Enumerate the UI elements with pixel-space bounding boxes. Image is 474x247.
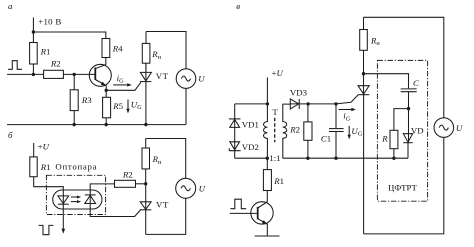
wire gate return rail v bbox=[283, 157, 408, 159]
source U circle a bbox=[176, 69, 196, 89]
input pulse symbol a bbox=[8, 61, 22, 70]
transistor VT1 base bar bbox=[94, 68, 96, 81]
light arrows optocoupler bbox=[71, 196, 78, 198]
capacitor C bbox=[401, 88, 417, 90]
svg-text:UG: UG bbox=[131, 100, 142, 112]
resistor Rn v bbox=[363, 17, 365, 29]
resistor R5 bbox=[105, 90, 107, 97]
svg-text:а: а bbox=[8, 1, 13, 11]
svg-text:+10 В: +10 В bbox=[38, 16, 61, 26]
svg-text:ЦФТРТ: ЦФТРТ bbox=[388, 183, 417, 193]
wire VD1 branch top bbox=[235, 103, 268, 105]
svg-text:R2: R2 bbox=[50, 58, 61, 68]
wire R1 to LED bbox=[34, 177, 64, 205]
resistor Rn a bbox=[145, 32, 147, 44]
resistor R v bbox=[394, 109, 409, 131]
svg-text:R2: R2 bbox=[122, 170, 133, 180]
svg-text:C1: C1 bbox=[321, 134, 331, 144]
wire +U b bbox=[33, 143, 35, 157]
junction +10V bbox=[32, 30, 35, 33]
node base junction bbox=[73, 73, 76, 76]
thyristor VS v bbox=[358, 86, 369, 94]
junction gate b bbox=[144, 182, 147, 185]
junction R5 bottom bbox=[105, 123, 108, 126]
wire bottom b bbox=[146, 198, 186, 234]
zener VD2 bbox=[230, 142, 240, 150]
wire photothyristor bottom to gate bbox=[90, 204, 140, 217]
input pulse symbol v bbox=[230, 199, 246, 209]
wire +U v bbox=[266, 78, 268, 104]
thyristor VT b bbox=[140, 202, 151, 210]
transistor VT2 circle bbox=[251, 202, 273, 224]
node +10V supply wire bbox=[33, 18, 105, 39]
optocoupler dashed box bbox=[46, 175, 105, 214]
transistor VT1 emitter bbox=[95, 80, 106, 91]
wire LED cathode down arrow bbox=[62, 204, 64, 229]
resistor R1 b bbox=[30, 157, 37, 177]
svg-text:R1: R1 bbox=[40, 46, 51, 56]
resistor R2 v bbox=[307, 104, 309, 122]
input pulse symbol b bbox=[39, 225, 54, 234]
diode VD1 bbox=[234, 104, 236, 142]
svg-text:U: U bbox=[198, 73, 205, 83]
junction C bottom bbox=[407, 107, 410, 110]
svg-text:VD: VD bbox=[411, 126, 424, 136]
transistor VT2 base bar bbox=[257, 207, 259, 219]
svg-text:1:1: 1:1 bbox=[269, 153, 280, 163]
svg-text:Rн: Rн bbox=[152, 154, 162, 166]
junction VT cathode bottom bbox=[144, 123, 147, 126]
wire input a bbox=[7, 73, 44, 75]
junction transformer top bbox=[266, 102, 269, 105]
svg-text:Оптопара: Оптопара bbox=[55, 162, 97, 172]
junction R2 bottom v bbox=[306, 157, 309, 160]
svg-text:Т: Т bbox=[272, 107, 278, 117]
svg-text:C: C bbox=[413, 78, 419, 88]
capacitor C top wire bbox=[364, 74, 409, 89]
resistor R2 b bbox=[115, 180, 136, 187]
wire base v bbox=[230, 212, 258, 214]
source U circle b bbox=[176, 178, 196, 198]
transformer core bbox=[274, 118, 276, 143]
svg-text:U: U bbox=[199, 183, 206, 193]
transformer T primary winding bbox=[264, 104, 268, 158]
svg-text:б: б bbox=[8, 130, 13, 140]
svg-text:в: в bbox=[236, 1, 240, 11]
svg-text:VT: VT bbox=[156, 71, 169, 81]
diode VD3 bbox=[290, 99, 298, 109]
svg-text:R3: R3 bbox=[81, 95, 92, 105]
voltage UG arrow v bbox=[348, 126, 350, 135]
wire bottom v bbox=[364, 137, 444, 234]
junction anode v bbox=[362, 72, 365, 75]
svg-text:Rн: Rн bbox=[370, 35, 380, 47]
junction C1 bottom v bbox=[334, 157, 337, 160]
junction R bottom v bbox=[392, 157, 395, 160]
optocoupler body bbox=[53, 190, 102, 209]
svg-text:VD3: VD3 bbox=[290, 88, 308, 98]
photothyristor of optocoupler bbox=[85, 194, 96, 196]
wire bottom rail a bbox=[7, 124, 186, 126]
resistor R2 bbox=[44, 70, 64, 78]
dashed box CFTRT bbox=[377, 60, 427, 201]
node emitter junction bbox=[105, 89, 108, 92]
svg-text:R2: R2 bbox=[289, 125, 300, 135]
transistor VT2 emitter bbox=[258, 219, 268, 236]
wire R2 to junction b bbox=[136, 183, 146, 185]
junction R3 bottom bbox=[73, 123, 76, 126]
svg-text:VD2: VD2 bbox=[242, 142, 259, 152]
junction C1 top bbox=[334, 102, 337, 105]
svg-text:R1: R1 bbox=[40, 162, 51, 172]
svg-text:VD1: VD1 bbox=[242, 119, 259, 129]
wire top v bbox=[364, 17, 444, 118]
wire gate v bbox=[336, 95, 358, 104]
svg-text:R1: R1 bbox=[273, 176, 284, 186]
svg-text:iG: iG bbox=[117, 73, 124, 85]
resistor R1 bbox=[32, 32, 34, 43]
svg-text:R4: R4 bbox=[112, 43, 123, 53]
transformer T secondary winding bbox=[283, 104, 291, 158]
wire collector R4 bbox=[95, 58, 105, 69]
junction R1 input bbox=[32, 73, 35, 76]
diode VD v bbox=[408, 109, 410, 143]
capacitor C1 bbox=[335, 104, 337, 128]
wire base bbox=[63, 73, 95, 75]
wire primary bottom bbox=[235, 157, 268, 159]
current iG arrow v bbox=[339, 109, 353, 111]
resistor R1 v bbox=[266, 158, 268, 169]
svg-text:VT: VT bbox=[156, 200, 169, 210]
wire source bottom a bbox=[185, 88, 187, 124]
resistor R3 bbox=[73, 74, 75, 89]
source U circle v bbox=[434, 118, 454, 138]
svg-text:Rн: Rн bbox=[151, 49, 161, 61]
wire anode top a bbox=[146, 32, 186, 69]
svg-text:+U: +U bbox=[38, 142, 50, 152]
voltage UG arrow a bbox=[127, 100, 129, 110]
resistor R4 bbox=[102, 39, 110, 58]
wire gate a bbox=[106, 82, 141, 90]
svg-text:U: U bbox=[456, 123, 463, 133]
junction VD3 out bbox=[306, 102, 309, 105]
junction primary bottom bbox=[266, 157, 269, 160]
thyristor VT a bbox=[140, 72, 151, 81]
resistor Rn b bbox=[145, 169, 147, 184]
LED of optocoupler bbox=[58, 196, 69, 204]
wire photothyristor top bbox=[90, 184, 114, 204]
transistor VT1 circle bbox=[89, 64, 111, 86]
current iG arrow a bbox=[113, 84, 128, 86]
wire top b bbox=[146, 139, 186, 179]
svg-text:R: R bbox=[381, 134, 388, 144]
svg-text:+U: +U bbox=[272, 68, 284, 78]
svg-text:R5: R5 bbox=[112, 101, 123, 111]
transistor VT2 collector bbox=[258, 202, 268, 208]
svg-text:UG: UG bbox=[351, 126, 362, 138]
svg-text:iG: iG bbox=[343, 111, 350, 123]
ground bbox=[255, 235, 280, 237]
